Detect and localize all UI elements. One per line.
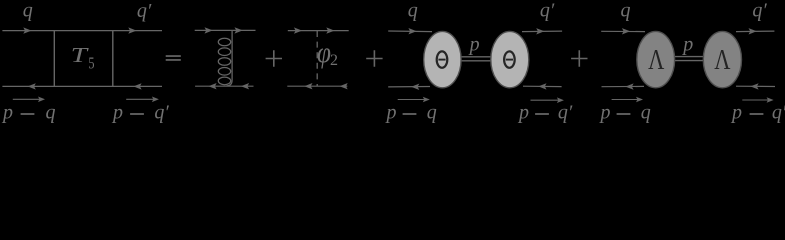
arrow right on top line d1 left — [23, 27, 31, 33]
wire bottom-left line d5 — [602, 85, 645, 87]
svg-text:p: p — [1, 102, 13, 124]
Theta glyph left — [437, 51, 448, 67]
svg-text:Λ: Λ — [714, 45, 731, 76]
Theta glyph right — [504, 51, 515, 67]
arrow right on top line d1 right — [128, 27, 136, 33]
arrow right on top line d2 left — [205, 27, 213, 33]
svg-text:5: 5 — [88, 55, 94, 73]
plus sign 3 — [571, 50, 587, 66]
blob Lambda right — [703, 31, 741, 87]
wire top-right line d5 — [736, 30, 774, 33]
arrow left on bottom-right d5 — [750, 83, 758, 89]
arrow left on bottom line d3 right — [340, 83, 348, 89]
double line connector d5 — [672, 56, 704, 58]
svg-text:p: p — [111, 102, 123, 124]
svg-text:p: p — [517, 102, 529, 124]
svg-text:T: T — [71, 43, 89, 67]
svg-text:p: p — [468, 33, 480, 55]
gluon loop 2 — [218, 48, 230, 56]
svg-text:q′: q′ — [772, 102, 785, 124]
momentum arrow p-q' d4 — [531, 99, 560, 101]
dashed scalar line — [316, 31, 318, 86]
wire bottom line d2 — [195, 85, 253, 87]
svg-text:q: q — [641, 102, 651, 124]
gluon loop 5 — [218, 77, 230, 85]
equals sign — [166, 55, 181, 57]
arrow left on bottom line d1 right — [133, 83, 141, 89]
wire top line d3 — [288, 30, 349, 32]
wire top-left line d4 — [388, 30, 432, 33]
momentum arrow p-q d1 — [13, 98, 41, 100]
arrow right on top line d2 right — [235, 27, 243, 33]
arrow right on top-right d4 — [536, 28, 544, 34]
momentum arrow p-q d5 — [612, 99, 639, 101]
arrow right on top-left d5 — [622, 28, 630, 34]
arrow left on bottom-right d4 — [538, 83, 546, 89]
gluon loop 3 — [218, 58, 230, 66]
blob Theta left — [424, 31, 461, 87]
wire top line d2 — [195, 29, 256, 31]
double line connector d4 — [458, 56, 492, 58]
svg-text:p: p — [681, 33, 693, 55]
svg-text:q: q — [23, 0, 33, 22]
svg-text:q′: q′ — [137, 0, 152, 22]
wire top line d1 — [2, 30, 162, 32]
arrow left on bottom line d3 left — [304, 83, 312, 89]
arrow left on bottom-left d4 — [411, 84, 419, 90]
wire bottom-left line d4 — [388, 86, 430, 88]
wire bottom line d3 — [287, 85, 347, 87]
gluon loop 1 — [218, 38, 230, 46]
svg-text:φ: φ — [317, 36, 331, 69]
wire top-left line d5 — [601, 30, 645, 32]
arrow right on top-left d4 — [408, 28, 416, 34]
wire top-right line d4 — [522, 30, 562, 33]
svg-text:Λ: Λ — [648, 45, 665, 76]
blob Theta right — [491, 31, 529, 87]
arrow right on top line d3 left — [294, 27, 302, 33]
wire bottom-right line d5 — [736, 85, 775, 87]
gluon spine — [227, 31, 233, 86]
svg-text:q: q — [621, 0, 631, 22]
arrow right on top-right d5 — [749, 28, 757, 34]
svg-text:q: q — [408, 0, 418, 22]
arrow left on bottom line d2 right — [241, 83, 249, 89]
svg-text:q′: q′ — [752, 0, 767, 22]
svg-text:q: q — [46, 102, 56, 124]
wire bottom-right line d4 — [523, 85, 562, 87]
svg-text:2: 2 — [330, 52, 338, 69]
gluon loop 4 — [218, 68, 230, 76]
svg-text:p: p — [385, 102, 397, 124]
svg-text:p: p — [730, 102, 742, 124]
arrow left on bottom line d2 left — [208, 83, 216, 89]
plus sign 2 — [366, 50, 382, 66]
arrow right on top line d3 right — [326, 27, 334, 33]
svg-text:p: p — [599, 102, 611, 124]
wire box left vertical — [53, 31, 55, 87]
svg-text:q′: q′ — [558, 102, 573, 124]
wire box right vertical — [112, 31, 114, 87]
arrow left on bottom-left d5 — [625, 83, 633, 89]
momentum arrow p-q' d5 — [742, 99, 769, 101]
momentum arrow p-q d4 — [398, 99, 426, 101]
arrow left on bottom line d1 left — [28, 83, 36, 89]
svg-text:q: q — [427, 102, 437, 124]
wire bottom line d1 — [2, 85, 162, 87]
plus sign 1 — [266, 50, 282, 66]
svg-text:q′: q′ — [154, 102, 169, 124]
momentum arrow p-q' d1 — [126, 98, 155, 100]
svg-text:q′: q′ — [540, 0, 555, 22]
blob Lambda left — [637, 31, 675, 87]
